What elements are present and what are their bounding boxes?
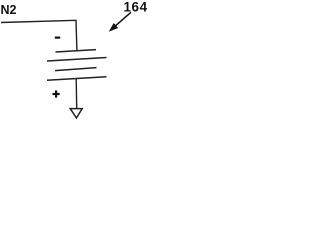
battery B1 plus sign xyxy=(53,90,60,97)
wire from node N2 to battery top terminal xyxy=(1,20,77,51)
battery B1 minus sign xyxy=(55,36,60,38)
battery B1 plate 4 (bottom long plate) xyxy=(47,77,107,81)
wire from battery bottom terminal to ground xyxy=(75,79,78,109)
svg-text:164: 164 xyxy=(124,0,148,14)
battery B1 plate 2 (long plate) xyxy=(47,58,107,62)
battery B1 plate 3 (short plate) xyxy=(55,68,97,71)
battery B1 plate 1 (top short plate) xyxy=(56,50,97,52)
leader line for 164 xyxy=(113,12,132,28)
ground symbol (open arrow) xyxy=(70,109,82,118)
svg-text:N2: N2 xyxy=(1,3,17,17)
leader arrowhead pointing at battery xyxy=(109,23,118,31)
